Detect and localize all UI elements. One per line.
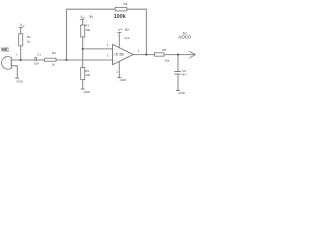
svg-text:4n7: 4n7 xyxy=(182,72,187,76)
svg-text:10k: 10k xyxy=(85,28,90,32)
svg-text:GND: GND xyxy=(84,90,91,94)
svg-text:-: - xyxy=(113,47,114,51)
svg-text:5V: 5V xyxy=(89,15,94,19)
svg-text:+: + xyxy=(113,59,115,63)
svg-text:100k: 100k xyxy=(114,14,127,20)
svg-text:R5: R5 xyxy=(162,48,166,52)
svg-text:1uF: 1uF xyxy=(34,61,39,65)
svg-text:GND: GND xyxy=(120,78,127,82)
svg-text:MIC: MIC xyxy=(1,48,9,54)
svg-text:C1: C1 xyxy=(37,53,41,57)
svg-text:R3: R3 xyxy=(124,2,128,6)
svg-text:GND: GND xyxy=(178,91,185,95)
svg-text:LM 358: LM 358 xyxy=(115,53,124,57)
svg-text:R4: R4 xyxy=(52,51,56,55)
svg-text:ADC0: ADC0 xyxy=(178,34,191,39)
svg-text:R1: R1 xyxy=(27,35,31,39)
svg-text:GND: GND xyxy=(16,80,23,84)
svg-text:+: + xyxy=(16,53,18,57)
svg-text:10k: 10k xyxy=(85,73,90,77)
svg-text:R1: R1 xyxy=(85,23,89,27)
svg-text:1k: 1k xyxy=(52,63,56,67)
svg-text:U1A: U1A xyxy=(124,36,129,40)
svg-text:10k: 10k xyxy=(164,59,169,63)
svg-text:5V: 5V xyxy=(125,28,130,32)
svg-text:V+: V+ xyxy=(118,28,122,32)
svg-text:1k: 1k xyxy=(27,40,31,44)
